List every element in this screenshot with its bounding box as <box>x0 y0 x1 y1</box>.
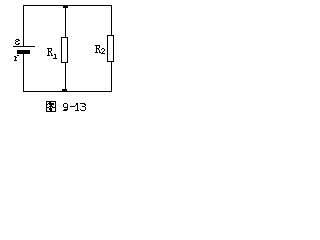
junction dot top (R1 branch / top rail) <box>63 5 68 8</box>
battery short thick plate (negative terminal) <box>17 50 30 54</box>
wire right lower (R2 bottom lead) <box>111 62 112 92</box>
caption digit 9 <box>63 103 68 111</box>
wire left lower (battery negative lead) <box>23 54 24 92</box>
label R1: subscript 1 <box>53 54 57 59</box>
resistor R2 body <box>107 35 114 62</box>
wire bottom (battery - rail) <box>23 91 112 92</box>
caption glyph TU (Chinese: figure) <box>46 101 56 112</box>
wire right upper (R2 top lead) <box>111 5 112 35</box>
label epsilon (battery EMF) <box>15 39 20 45</box>
caption dash <box>70 106 75 107</box>
battery long thin plate (positive terminal) <box>13 46 35 47</box>
resistor R1 body <box>61 37 68 63</box>
label R2: subscript 2 <box>101 48 105 54</box>
wire left upper (battery positive lead) <box>23 5 24 46</box>
junction dot bottom (R1 branch / bottom rail) <box>62 89 67 92</box>
label R2: letter R <box>95 45 101 53</box>
wire middle upper (R1 top lead) <box>65 5 66 37</box>
wire top (battery + rail) <box>23 5 112 6</box>
caption digit 1 <box>75 103 79 111</box>
caption digit 3 <box>80 103 86 111</box>
label r (battery internal resistance) <box>14 55 19 61</box>
label R1: letter R <box>47 48 53 56</box>
wire middle lower (R1 bottom lead) <box>65 63 66 92</box>
